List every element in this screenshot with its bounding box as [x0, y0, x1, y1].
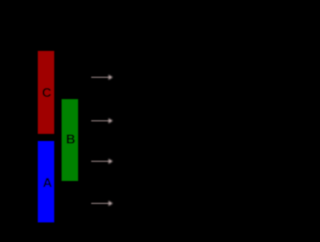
bar A (blue) [38, 141, 54, 222]
arrow 2 [91, 118, 113, 123]
arrow 1 [91, 75, 113, 80]
bar C (red) [38, 51, 54, 134]
svg-text:B: B [66, 132, 75, 147]
svg-text:C: C [42, 85, 52, 100]
bar B (green) [62, 99, 79, 181]
arrow 3 [91, 159, 113, 164]
svg-text:A: A [43, 175, 53, 190]
arrow 4 [91, 201, 113, 206]
